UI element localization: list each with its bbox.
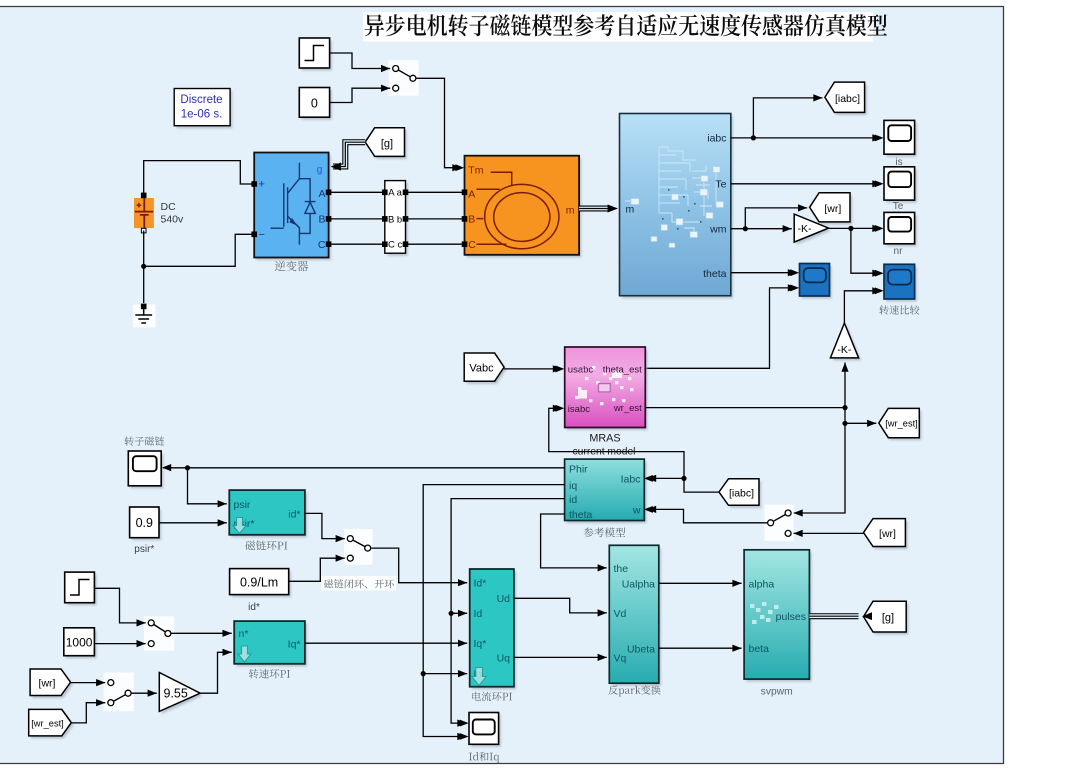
wire Phir to flux scope and psir <box>163 467 565 469</box>
label 磁链闭环、开环 <box>324 579 394 588</box>
wire Uq to Vq <box>514 656 607 658</box>
junction wm <box>743 226 748 231</box>
wire 1000 to switch <box>94 643 145 645</box>
svg-text:0.9: 0.9 <box>136 516 153 530</box>
sample time label Discrete 1e-06 s. <box>176 91 232 128</box>
svg-text:m: m <box>626 203 635 215</box>
wire iabc up to Goto [iabc] <box>753 98 822 138</box>
inverter ports <box>252 182 257 187</box>
wire iabc to scope is <box>731 137 882 139</box>
junction wr_est tag branch <box>842 421 847 426</box>
scope is <box>886 123 917 157</box>
label 逆变器 <box>275 261 308 272</box>
svg-text:A: A <box>468 188 475 200</box>
label 转子磁链 <box>125 436 165 445</box>
svg-text:n*: n* <box>239 628 249 640</box>
svg-text:Ualpha: Ualpha <box>622 578 655 590</box>
wire Vabc to usabc <box>504 368 562 370</box>
wires meter to motor ABC <box>408 191 462 193</box>
inverter block 逆变器 (universal bridge) <box>256 155 330 260</box>
manual switch w feedback <box>764 505 793 541</box>
bus wire [g] to inverter g <box>333 142 365 166</box>
wire gain to scope nr <box>829 227 882 229</box>
svg-text:the: the <box>614 563 629 575</box>
reference model subsystem 参考模型 <box>567 462 647 523</box>
svg-text:Discrete: Discrete <box>180 94 222 106</box>
From tag [iabc] (mid) <box>721 481 761 508</box>
wire step to switch <box>94 588 145 623</box>
junction DC- <box>141 264 146 269</box>
svg-text:0: 0 <box>311 97 318 111</box>
wire switch to motor Tm <box>416 78 462 167</box>
flux PI subsystem 磁链环PI <box>232 493 308 538</box>
svg-text:Tm: Tm <box>468 165 483 177</box>
svg-text:beta: beta <box>749 643 770 655</box>
svg-text:Te: Te <box>715 179 726 191</box>
scope Id和Iq <box>471 715 501 747</box>
From tag Vabc <box>466 356 506 384</box>
svg-text:wr_est: wr_est <box>613 403 642 414</box>
bus svpwm pulses to [g] <box>809 613 858 619</box>
manual switch (Tm select) <box>389 60 419 96</box>
svg-text:C: C <box>468 239 476 251</box>
svg-text:-K-: -K- <box>837 344 852 356</box>
step source Step1 <box>302 41 332 71</box>
Goto tag [iabc] <box>827 85 867 115</box>
label 转速比较 <box>879 305 919 314</box>
junction iabc <box>751 135 756 140</box>
theta compare scope (blue, unnamed) <box>802 266 832 299</box>
svg-text:−: − <box>259 229 265 241</box>
label 电流环PI <box>472 692 512 702</box>
svg-text:Te: Te <box>893 201 904 212</box>
wire [wr_est] to switch <box>71 703 105 723</box>
wire Te to scope Te <box>731 183 882 185</box>
From tag [wr] (bottom left) <box>32 672 72 699</box>
svg-text:Iq*: Iq* <box>474 638 487 650</box>
svg-text:isabc: isabc <box>568 404 590 415</box>
svg-text:Id: Id <box>474 608 483 620</box>
svg-text:iq: iq <box>569 480 577 492</box>
svg-text:[g]: [g] <box>381 138 393 150</box>
manual switch speed ref <box>144 616 174 651</box>
svg-text:[iabc]: [iabc] <box>729 487 754 499</box>
svg-text:[wr]: [wr] <box>39 678 56 690</box>
svg-text:g: g <box>317 164 323 176</box>
wire Ubeta to beta <box>659 647 742 649</box>
wire Iq* to current PI <box>305 642 467 644</box>
svg-text:540v: 540v <box>161 214 185 226</box>
wire id* to flux switch <box>305 513 345 538</box>
svg-text:B b: B b <box>388 214 402 225</box>
wire 0.9 to psir* <box>159 522 227 524</box>
measurement subsystem block (machines measurement demux) <box>622 116 733 298</box>
From tag [wr_est] (bottom left) <box>31 712 74 739</box>
svg-text:B: B <box>318 213 325 225</box>
svg-text:Uq: Uq <box>497 652 511 664</box>
wire switch out to 参考模型 w <box>647 509 768 522</box>
svg-text:Id*: Id* <box>474 578 487 590</box>
speed PI subsystem 转速环PI <box>236 624 307 667</box>
scope 转速比较 (speed compare, blue) <box>886 267 917 302</box>
wire wr_est down to switch <box>794 408 846 513</box>
svg-text:Phir: Phir <box>569 463 588 475</box>
three-phase measurement block Aa Bb Cc <box>387 183 408 256</box>
DC source ports <box>141 193 146 198</box>
gain 9.55 <box>162 675 203 714</box>
wire gain to speed PI <box>200 652 232 693</box>
svg-text:psir: psir <box>234 499 251 511</box>
wire id from reference model <box>451 499 564 614</box>
svg-text:theta: theta <box>703 268 727 280</box>
svg-text:+: + <box>259 179 265 191</box>
wire wm to gain -K- <box>731 228 792 230</box>
svg-text:id*: id* <box>288 508 300 520</box>
wires inverter ABC to meter <box>331 191 382 193</box>
svg-text:wm: wm <box>709 224 727 236</box>
vertical gain -K- (wr_est scale) <box>833 326 861 361</box>
wire switch to gain <box>131 692 157 694</box>
svg-text:theta: theta <box>569 509 593 521</box>
label 反park变换 <box>609 685 661 696</box>
junction wr_est main <box>842 405 847 410</box>
svg-text:psir*: psir* <box>134 544 154 555</box>
svg-text:[g]: [g] <box>882 612 894 624</box>
label Id和Iq <box>469 752 499 763</box>
wire flux switch to Id* <box>371 548 467 583</box>
svg-text:Ud: Ud <box>497 593 511 605</box>
svg-text:m: m <box>566 204 575 216</box>
inverse park subsystem 反park变换 <box>612 548 662 686</box>
wire 0.9/Lm to flux switch <box>289 558 345 581</box>
svg-text:w: w <box>632 504 641 516</box>
svg-text:A a: A a <box>388 188 402 199</box>
svg-text:Ubeta: Ubeta <box>627 643 655 655</box>
svg-text:C: C <box>318 239 326 251</box>
wire MRAS wr_est right <box>645 407 845 409</box>
scope 转子磁链 (flipped) <box>131 454 164 489</box>
svg-text:0.9/Lm: 0.9/Lm <box>240 576 278 590</box>
svg-text:Vabc: Vabc <box>469 363 494 375</box>
constant 0.9/Lm <box>232 571 291 597</box>
svg-text:id: id <box>569 494 577 506</box>
svg-text:pulses: pulses <box>776 611 806 623</box>
wire iq from reference model <box>423 485 564 674</box>
manual switch flux open/closed loop <box>344 529 373 565</box>
constant 0.9 <box>132 510 161 541</box>
wire step1 to switch <box>330 53 391 69</box>
bus motor m to measurement subsystem <box>579 206 608 212</box>
wire inverter - to DC- and ground <box>144 234 252 266</box>
wire wr_est up into vertical gain <box>844 363 846 408</box>
svg-text:nr: nr <box>894 246 904 257</box>
wire to Goto [wr_est] <box>845 422 876 424</box>
svg-text:Iabc: Iabc <box>621 474 641 486</box>
scope Te <box>886 169 917 202</box>
MRAS current model subsystem <box>567 350 648 431</box>
Goto tag [wr_est] <box>881 411 922 440</box>
constant 0 <box>302 90 332 120</box>
svg-text:iabc: iabc <box>707 133 726 145</box>
svg-text:A: A <box>318 188 325 200</box>
wire theta from reference model to inverse park <box>541 514 607 568</box>
svg-text:Vd: Vd <box>614 608 627 620</box>
svg-text:B: B <box>468 214 475 226</box>
annotation 磁链闭环、开环 background <box>321 576 396 591</box>
wire const0 to switch <box>330 88 391 102</box>
scope nr <box>886 215 917 246</box>
svg-text:C c: C c <box>388 240 403 251</box>
title bar <box>363 12 873 42</box>
gain -K- (rad/s to rpm) <box>797 217 831 245</box>
svg-text:usabc: usabc <box>568 364 594 375</box>
wire MRAS theta_est to blue scope <box>645 288 797 368</box>
svg-text:9.55: 9.55 <box>164 687 188 701</box>
svg-text:DC: DC <box>161 201 177 213</box>
svg-text:-K-: -K- <box>798 223 813 235</box>
wire DC+ to inverter + <box>144 161 252 196</box>
label 转速环PI <box>249 669 290 679</box>
label 参考模型 <box>584 528 626 538</box>
From tag [g] <box>367 130 406 159</box>
label 磁链环PI <box>245 541 287 551</box>
svg-text:[wr]: [wr] <box>824 203 841 215</box>
wire Ud to Vd <box>514 598 607 613</box>
svg-text:[wr_est]: [wr_est] <box>31 719 64 729</box>
wire Ualpha to alpha <box>659 582 742 584</box>
title text <box>365 14 887 36</box>
ground symbol <box>133 305 156 328</box>
wire [wr] to switch <box>71 682 106 684</box>
current PI subsystem 电流环PI <box>472 572 516 690</box>
DC voltage source DC 540v <box>134 198 154 228</box>
svg-text:Vq: Vq <box>614 653 627 665</box>
From tag [wr] (right) <box>866 521 908 549</box>
junction iabc mid <box>681 476 686 481</box>
Goto tag [g] (bottom right) <box>866 604 909 635</box>
wire [iabc] to Iabc and isabc <box>647 478 719 492</box>
asynchronous machine block <box>467 158 582 257</box>
constant 1000 <box>66 630 97 658</box>
wire wm up to Goto [wr] <box>745 208 807 229</box>
svg-text:alpha: alpha <box>749 578 775 590</box>
wire [wr] to switch <box>794 532 864 534</box>
wire vertical gain out to speed compare scope <box>844 291 881 323</box>
svg-text:1e-06 s.: 1e-06 s. <box>181 109 223 121</box>
svg-text:MRAS: MRAS <box>589 432 620 444</box>
svg-text:[iabc]: [iabc] <box>835 93 860 105</box>
Goto tag [wr] <box>812 195 852 224</box>
svg-text:Iq*: Iq* <box>288 639 301 651</box>
step source (speed ref) <box>67 575 97 606</box>
wire theta to blue scope <box>731 272 797 274</box>
wire DC- down to ground <box>143 231 145 303</box>
svpwm subsystem <box>746 552 811 681</box>
manual switch wr/wr_est <box>104 673 134 712</box>
svg-text:id*: id* <box>248 602 260 613</box>
wire gain branch down to speed-compare scope <box>851 228 882 273</box>
wire switch to n* <box>171 632 232 634</box>
svg-text:[wr_est]: [wr_est] <box>885 419 918 429</box>
svg-text:1000: 1000 <box>66 636 93 650</box>
svg-text:svpwm: svpwm <box>761 687 793 698</box>
svg-text:theta_est: theta_est <box>603 364 642 375</box>
svg-text:[wr]: [wr] <box>879 528 896 540</box>
